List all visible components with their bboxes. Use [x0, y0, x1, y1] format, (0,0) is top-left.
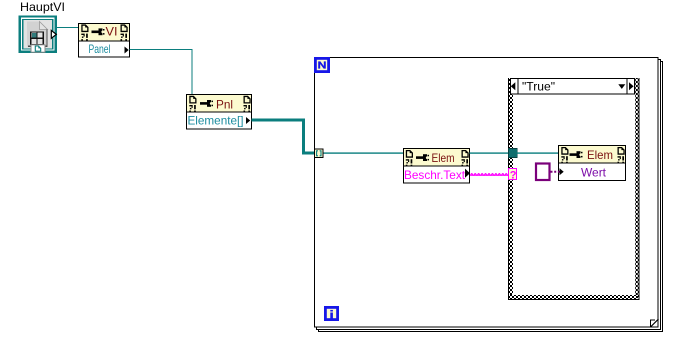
for loop resize corner [651, 319, 659, 327]
Pnl node right ref terminal [244, 96, 251, 112]
property node Elem (Wert) [559, 146, 626, 181]
svg-text:Pnl: Pnl [216, 98, 233, 112]
VI icon small page tab [31, 45, 45, 52]
case selector label "True" [522, 80, 555, 94]
dotted wire constant to Wert input [551, 171, 560, 173]
VI node right ref terminal [121, 25, 128, 41]
label HauptVI [20, 0, 65, 14]
property Wert [581, 166, 607, 180]
case selector decrement arrow [511, 82, 516, 90]
reference tunnel into case (teal square) [509, 149, 518, 158]
case selector dropdown arrow [618, 84, 625, 89]
svg-text:VI: VI [106, 25, 118, 39]
property node Pnl [187, 95, 252, 130]
array wire Elemente[] to loop tunnel [252, 119, 316, 155]
svg-text:Elem: Elem [432, 151, 455, 165]
VI reference icon (HauptVI) [19, 15, 57, 53]
Wert input arrow [560, 168, 564, 175]
Elem1 left ref terminal [406, 150, 413, 166]
svg-text:Wert: Wert [581, 166, 607, 180]
Elem2 right ref terminal [618, 147, 625, 163]
svg-text:Elemente[]: Elemente[] [188, 114, 244, 128]
wire icon to VI node [57, 27, 80, 29]
string wire squiggle Beschr.Text to case selector [470, 174, 509, 176]
property node VI [79, 24, 130, 58]
Pnl node title [216, 98, 233, 112]
svg-text:Elem: Elem [587, 148, 613, 162]
variant constant (purple square) [536, 164, 550, 181]
case selector increment arrow [629, 82, 634, 90]
VI node plug glyph [92, 28, 105, 35]
loop count terminal N [315, 58, 328, 71]
for loop border [315, 58, 663, 332]
Elem1 right ref terminal [462, 150, 469, 166]
VI icon output triangle [51, 30, 56, 38]
property Beschr.Text [404, 168, 466, 182]
property Elemente[] [188, 114, 244, 128]
Pnl node left ref terminal [189, 96, 196, 112]
case selector terminal ? [509, 169, 517, 182]
Panel output arrow [125, 47, 129, 54]
Elem1 title [432, 151, 455, 165]
svg-text:HauptVI: HauptVI [20, 0, 65, 14]
wire Elem node to case tunnel [470, 152, 510, 153]
wire tunnel to Elem node [324, 152, 404, 153]
svg-text:Panel: Panel [89, 42, 111, 56]
wire case tunnel to Elem2 node [517, 152, 559, 153]
property Panel [89, 42, 111, 56]
Elemente[] output arrow [246, 117, 250, 124]
case structure border bottom [508, 295, 639, 300]
case selector bar [511, 79, 635, 95]
svg-text:?: ? [510, 169, 517, 181]
loop iteration terminal i [325, 307, 337, 319]
svg-text:"True": "True" [522, 80, 555, 94]
Elem1 plug glyph [416, 154, 429, 161]
auto-indexing tunnel [] [315, 149, 324, 158]
VI node left ref terminal [81, 25, 88, 41]
svg-text:Beschr.Text: Beschr.Text [404, 168, 466, 182]
Beschr.Text output arrow [465, 169, 470, 178]
case structure border right [635, 78, 640, 300]
Pnl node plug glyph [200, 100, 213, 107]
Elem2 left ref terminal [561, 147, 568, 163]
property node Elem (Beschr.Text) [404, 149, 470, 184]
wire Panel to Pnl node [130, 50, 193, 95]
case structure border left [508, 78, 513, 300]
VI node title [106, 25, 118, 39]
Elem2 title [587, 148, 613, 162]
Elem2 plug glyph [570, 151, 583, 158]
